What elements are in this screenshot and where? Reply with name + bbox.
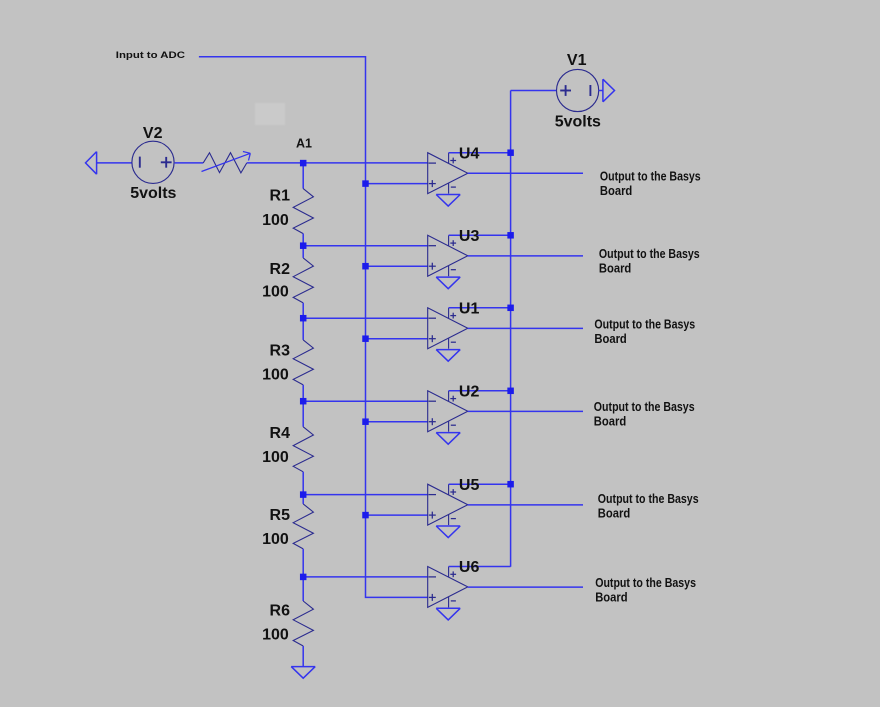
junction on ADC bus at U1 + input [362,335,369,342]
svg-text:100: 100 [262,449,289,466]
svg-text:U4: U4 [459,145,480,162]
wire: ladder segment below R4 [302,472,304,495]
wire: U5 positive supply to rail [449,483,511,485]
svg-text:Board: Board [594,331,627,346]
svg-text:R6: R6 [270,603,291,620]
svg-text:Board: Board [599,260,632,275]
junction on ADC bus at U3 + input [362,263,369,270]
wire: ladder segment below R3 [302,385,304,401]
svg-text:U3: U3 [459,228,480,245]
svg-text:R5: R5 [270,507,291,524]
op-amp U5 [428,484,468,525]
wire: U3 positive supply to rail [449,234,511,236]
ground at U3 negative supply [436,277,460,289]
voltage source V2 [132,141,174,183]
op-amp U3 [428,235,468,276]
wire: node R4/R5 to U-minus input [303,494,428,496]
ground at U2 negative supply [436,433,460,445]
svg-text:5volts: 5volts [555,113,601,130]
svg-text:V2: V2 [143,125,163,142]
wire: ladder segment above R4 [302,401,304,427]
svg-text:Output to the Basys: Output to the Basys [594,316,695,331]
svg-text:100: 100 [262,366,289,383]
wire: V2 to variable resistor [175,162,204,164]
junction U3 supply on rail [507,232,513,239]
op-amp U2 [428,391,468,432]
wire: U4 positive supply to rail [449,152,511,154]
svg-text:R2: R2 [270,261,291,278]
wire: V2 ground to V2 [97,162,132,164]
resistor R3 [293,340,313,385]
wire: ladder segment below R1 [302,234,304,246]
svg-text:100: 100 [262,531,289,548]
variable resistor arrow [202,152,251,172]
wire: U6 positive supply to rail [449,566,511,568]
svg-text:100: 100 [262,626,289,643]
ground (left arrow) at V2 negative terminal [86,152,97,175]
svg-text:U2: U2 [459,383,480,400]
svg-text:R4: R4 [270,425,291,442]
svg-text:R3: R3 [270,343,291,360]
svg-text:Output to the Basys: Output to the Basys [599,246,700,261]
ground at U6 negative supply [436,608,460,620]
junction node R5/R6 [300,574,307,581]
svg-text:Board: Board [595,590,628,605]
wire: ADC input net (top horizontal, vertical bus, U6 + input) [199,57,428,598]
junction U4 supply on rail [507,149,513,156]
junction node R4/R5 [300,491,307,498]
wire: ladder segment below R2 [302,303,304,318]
wire: U2 output [468,410,583,412]
resistor R4 [293,427,313,472]
wire: ladder segment above R3 [302,318,304,340]
wire: ladder segment above R5 [302,495,304,504]
wire: node R2/R3 to U-minus input [303,317,428,319]
wire: ADC bus stub to U4 + input [366,183,428,185]
ground (right arrow) at V1 negative terminal [603,79,615,102]
svg-text:U1: U1 [459,300,480,317]
svg-text:Board: Board [594,414,627,429]
wire: node R5/R6 to U-minus input [303,576,428,578]
junction node R3/R4 [300,398,307,405]
junction U1 supply on rail [507,305,513,312]
wire: ADC bus stub to U2 + input [366,421,428,423]
svg-text:Output to the Basys: Output to the Basys [594,399,695,414]
svg-text:Board: Board [600,183,633,198]
voltage source V1 [557,69,599,111]
svg-text:R1: R1 [270,187,291,204]
power rail from V1 down to op-amp supplies [510,91,512,567]
ground at U5 negative supply [436,526,460,538]
wire: U1 positive supply to rail [449,307,511,309]
svg-text:A1: A1 [296,136,312,150]
wire: ladder segment above R6 [302,577,304,601]
resistor R6 [293,601,313,646]
junction on ADC bus at U2 + input [362,418,369,425]
svg-text:Output to the Basys: Output to the Basys [600,168,701,183]
ground at bottom of ladder [291,667,315,679]
wire: ladder segment above R1 [302,163,304,189]
ground at U1 negative supply [436,350,460,362]
op-amp U4 [428,153,468,194]
op-amp U6 [428,567,468,608]
variable resistor (potentiometer) body [203,153,247,173]
wire: ADC bus stub to U1 + input [366,338,428,340]
ground at U4 negative supply [436,195,460,207]
svg-text:100: 100 [262,212,289,229]
wire: node R1/R2 to U-minus input [303,245,428,247]
svg-text:5volts: 5volts [130,185,176,202]
junction A1 node [300,160,307,167]
wire: U6 output [468,586,583,588]
resistor R2 [293,258,313,303]
wire: U4 output [468,172,583,174]
wire: node R3/R4 to U-minus input [303,400,428,402]
junction U5 supply on rail [507,481,513,488]
wire: variable resistor to node A1 and U4 - input [247,162,428,164]
svg-text:U5: U5 [459,477,480,494]
junction U2 supply on rail [507,388,513,395]
wire: ladder segment below R6 [302,646,304,666]
junction node R1/R2 [300,242,307,249]
junction on ADC bus at U4 + input [362,180,369,187]
resistor R5 [293,504,313,549]
wire: ADC bus stub to U5 + input [366,514,428,516]
svg-text:Input to ADC: Input to ADC [116,50,185,61]
junction on ADC bus at U5 + input [362,512,369,518]
svg-text:Board: Board [598,506,631,521]
wire: U3 output [468,255,583,257]
wire: V1 to right ground [599,90,603,92]
wire: V1 to rail [511,90,557,92]
wire: ladder segment below R5 [302,549,304,577]
wire: U5 output [468,504,583,506]
svg-text:V1: V1 [567,52,587,69]
wire: U2 positive supply to rail [449,390,511,392]
op-amp U1 [428,308,468,349]
wire: ladder segment above R2 [302,246,304,258]
wire: ADC bus stub to U3 + input [366,265,428,267]
svg-text:100: 100 [262,284,289,301]
faint highlight rectangle [255,103,285,125]
wire: U1 output [468,327,583,329]
svg-text:Output to the Basys: Output to the Basys [598,491,699,506]
svg-text:U6: U6 [459,559,480,576]
svg-text:Output to the Basys: Output to the Basys [595,575,696,590]
junction node R2/R3 [300,315,307,322]
resistor R1 [293,189,313,234]
